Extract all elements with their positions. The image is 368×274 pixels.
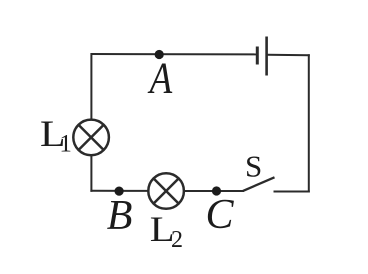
wire right vertical [308, 55, 310, 191]
wire left vertical lower (lamp L1 to corner) [90, 156, 92, 191]
battery negative short plate [256, 47, 259, 65]
svg-text:A: A [147, 54, 172, 103]
switch S lever [243, 177, 275, 191]
wire top-right segment (battery to corner) [268, 54, 309, 56]
wire bottom-middle segment (lamp L2 to switch pivot) [185, 190, 243, 192]
node A junction dot [155, 50, 164, 59]
wire top-left segment (corner to battery) [92, 53, 256, 55]
svg-text:S: S [245, 149, 262, 184]
battery cell [257, 37, 266, 76]
wire bottom-right segment (switch to corner) [275, 191, 309, 193]
node C junction dot [212, 186, 221, 195]
svg-text:C: C [206, 192, 235, 238]
battery positive long plate [265, 37, 268, 76]
wire left vertical upper (corner to lamp L1) [90, 54, 92, 119]
svg-text:1: 1 [59, 131, 72, 158]
node B junction dot [115, 187, 124, 196]
svg-text:B: B [107, 193, 133, 239]
svg-text:2: 2 [171, 227, 183, 253]
lamp L2 [148, 173, 184, 209]
lamp L1 [73, 120, 109, 156]
wire bottom-left segment (corner to lamp L2) [91, 190, 147, 192]
